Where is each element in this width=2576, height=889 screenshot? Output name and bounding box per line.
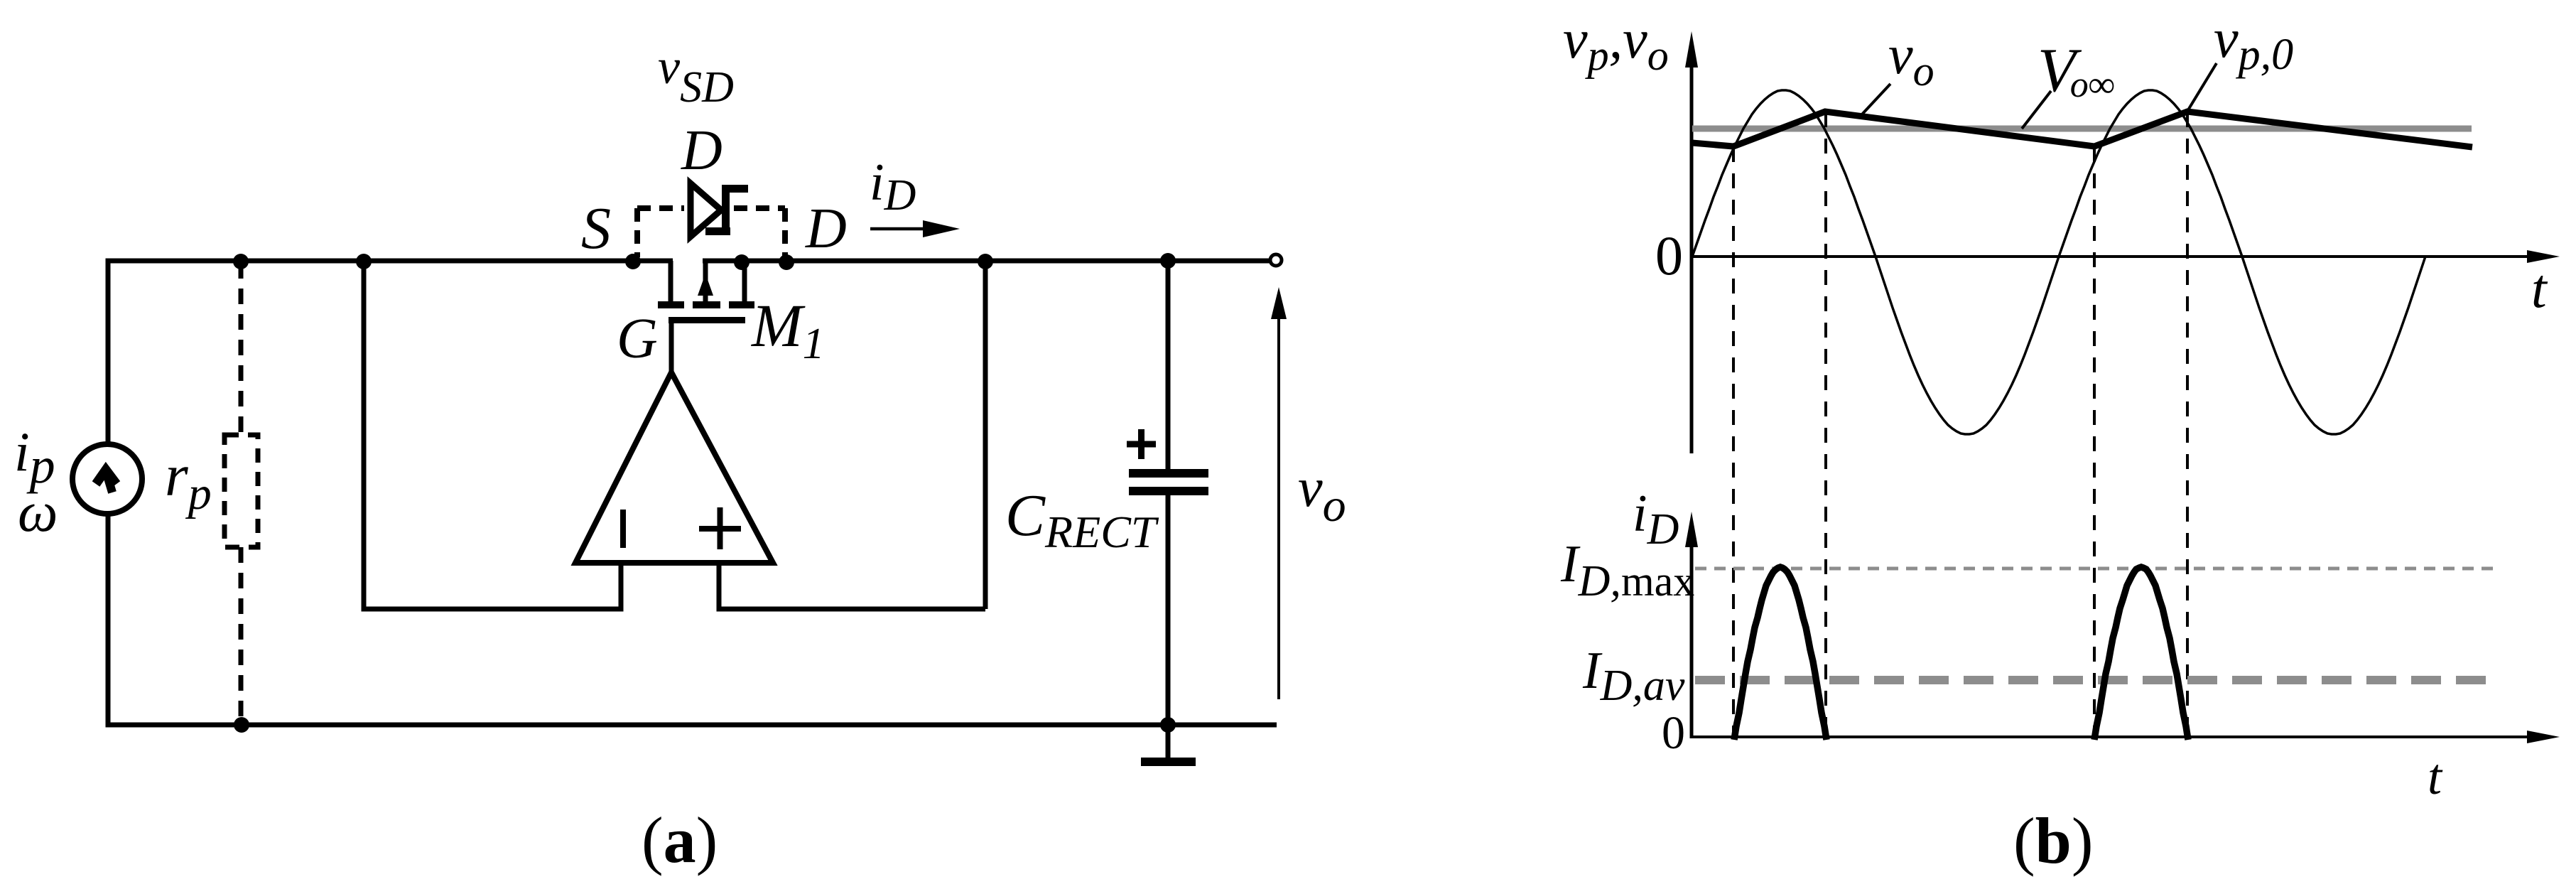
wire bottom rail bbox=[106, 723, 1277, 728]
current source ip bbox=[72, 444, 142, 514]
resistor rp dashed body bbox=[224, 263, 258, 725]
label vp,vo bbox=[1563, 8, 1669, 79]
label S bbox=[581, 195, 611, 262]
wire top rail bbox=[107, 259, 1270, 264]
label v_SD bbox=[658, 40, 734, 112]
label G bbox=[617, 308, 658, 370]
body diode D (schottky) bbox=[691, 183, 748, 237]
label M_1 bbox=[750, 291, 825, 368]
node cap bottom bbox=[1160, 717, 1176, 733]
transistor M1 gate bar bbox=[669, 317, 745, 323]
ID,av dashed gray line bbox=[1695, 676, 2494, 684]
output terminal open circle bbox=[1270, 254, 1282, 266]
capacitor CRECT bbox=[1129, 259, 1208, 726]
svg-text:(a): (a) bbox=[642, 804, 718, 876]
iD pulse 2 bbox=[2094, 567, 2188, 740]
Vo-inf gray line bbox=[1692, 126, 2472, 132]
transistor M1 channel bars bbox=[658, 301, 754, 308]
dashed vertical t1 bbox=[1732, 147, 1735, 737]
svg-text:(b): (b) bbox=[2013, 804, 2093, 877]
ID,max dotted line bbox=[1695, 567, 2494, 571]
label I_D,av bbox=[1582, 642, 1685, 710]
label i_D with arrow bbox=[870, 153, 960, 237]
label D right of box bbox=[805, 198, 847, 260]
wire mosfet drain lead bbox=[742, 259, 747, 306]
wire opamp minus lead bbox=[619, 561, 624, 612]
svg-text:D: D bbox=[681, 119, 723, 182]
label omega bbox=[18, 481, 58, 544]
op-amp U1 bbox=[575, 372, 773, 563]
label C_RECT bbox=[1005, 483, 1159, 557]
label 0 top plot bbox=[1655, 225, 1683, 286]
label r_p bbox=[165, 443, 212, 519]
label t bottom plot bbox=[2428, 748, 2443, 805]
label vp0 pointer bbox=[2187, 7, 2293, 112]
svg-text:G: G bbox=[617, 308, 658, 370]
node A top-left junction bbox=[233, 254, 249, 269]
label vo pointer bbox=[1861, 23, 1934, 116]
wire left vertical lower bbox=[106, 516, 111, 725]
plot vp axis vertical bbox=[1685, 31, 1698, 453]
plot iD axis vertical bbox=[1685, 512, 1698, 738]
wire opamp plus loop bbox=[717, 259, 986, 610]
ground bbox=[1141, 725, 1196, 766]
node cap top bbox=[1160, 253, 1176, 269]
wire opamp minus loop bbox=[364, 259, 623, 610]
vo bold waveform bbox=[1692, 112, 2472, 147]
label 0 bottom plot bbox=[1662, 707, 1685, 759]
op-amp minus input mark bbox=[620, 510, 626, 548]
label (b) bbox=[2013, 804, 2093, 877]
label t top plot bbox=[2531, 257, 2548, 319]
plot vp axis horizontal t bbox=[1692, 250, 2560, 263]
node dashed-box right junction bbox=[779, 254, 794, 270]
svg-text:S: S bbox=[581, 195, 611, 262]
dashed vertical t2 bbox=[1824, 112, 1827, 737]
body diode dashed box bbox=[637, 208, 785, 257]
wire left vertical upper bbox=[106, 259, 111, 443]
label i_D axis bbox=[1633, 485, 1679, 554]
capacitor plus sign bbox=[1127, 429, 1156, 459]
svg-text:0: 0 bbox=[1655, 225, 1683, 286]
label (a) bbox=[642, 804, 718, 876]
node S bbox=[625, 254, 641, 269]
wire mosfet source lead bbox=[669, 261, 673, 305]
op-amp plus input mark bbox=[699, 507, 741, 549]
transistor M1 body arrow bbox=[698, 261, 713, 301]
svg-text:0: 0 bbox=[1662, 707, 1685, 759]
vo arrow bbox=[1271, 287, 1287, 699]
wire gate lead bbox=[669, 323, 674, 373]
node drain-body junction bbox=[734, 254, 749, 270]
node rp bottom bbox=[234, 717, 249, 733]
svg-text:ω: ω bbox=[18, 481, 58, 544]
iD pulse 1 bbox=[1734, 567, 1827, 740]
svg-text:t: t bbox=[2531, 257, 2548, 319]
label Vo-inf pointer bbox=[2022, 36, 2115, 129]
svg-text:t: t bbox=[2428, 748, 2443, 805]
label i_p bbox=[14, 421, 55, 494]
node B opamp minus tap bbox=[356, 254, 372, 269]
dashed vertical t4 bbox=[2186, 112, 2189, 737]
label v_o circuit bbox=[1298, 456, 1346, 532]
label D above diode bbox=[681, 119, 723, 182]
node cap top tap bbox=[978, 254, 993, 269]
svg-text:D: D bbox=[805, 198, 847, 260]
plot iD axis horizontal t bbox=[1692, 731, 2560, 743]
sine wave vp bbox=[1692, 90, 2425, 434]
dashed vertical t3 bbox=[2093, 147, 2096, 737]
label I_D,max bbox=[1560, 535, 1694, 605]
